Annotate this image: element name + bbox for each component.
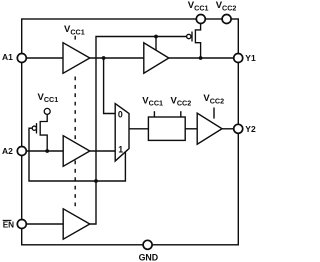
svg-text:VCC1: VCC1 [64,24,85,36]
wire Y2 buffer output [222,128,234,130]
svg-text:VCC1: VCC1 [142,95,163,107]
svg-text:0: 0 [118,109,123,119]
junction Q2 drain on A2 net [45,149,49,153]
svg-text:VCC2: VCC2 [171,95,192,107]
svg-text:Y2: Y2 [245,124,256,134]
svg-text:A1: A1 [2,52,13,62]
svg-text:VCC2: VCC2 [216,0,237,12]
wire level-shifter VCC1 tick [153,111,155,117]
wire Y1 buffer output [169,57,234,59]
svg-text:VCC1: VCC1 [188,0,209,12]
wire Y1 buffer enable stub [155,37,157,51]
wire EN input [26,223,63,225]
junction enable rail to Y1 buffer [154,35,158,39]
buffer U3 (Y2 output) [197,113,222,144]
terminal EN [17,220,26,229]
transistor Q2 gate bubble [32,126,36,130]
svg-text:VCC2: VCC2 [203,93,224,105]
multiplexer [115,104,129,161]
buffer EN [63,209,90,239]
svg-text:GND: GND [139,252,159,262]
buffer U2 (Y1 three-state) [144,43,169,73]
terminal VCC2 [222,15,231,24]
transistor Q1 gate bar [191,32,193,42]
wire Y2 buffer VCC2 tick [213,108,215,119]
wire mux select / Q2 gate net [29,128,125,181]
transistor Q2 channel and leads [40,114,47,150]
terminal Y2 [234,124,243,133]
transistor Q2 gate bar [36,123,38,133]
terminal GND [143,240,152,249]
svg-text:A2: A2 [2,146,13,156]
transistor Q1 gate bubble [187,34,191,38]
junction enable rail to select line [94,179,98,183]
wire level-shifter VCC2 tick [180,111,182,117]
wire A1 input [26,57,63,59]
terminal A1 [17,54,26,63]
svg-text:1: 1 [118,144,123,154]
wire mux 0 input branch [104,58,116,114]
wire level-shifter output [185,128,197,130]
level shifter box [148,117,185,140]
buffer A2 [63,136,90,167]
terminal VCC1 [196,15,205,24]
buffer A1 [63,43,90,74]
wire EN buffer output to enable rail [90,37,187,225]
label EN overline [3,219,12,221]
wire A1 buffer output to Y1 buffer [90,57,144,59]
junction A1 output node [102,56,106,60]
svg-text:EN: EN [3,221,14,230]
terminal Y1 [234,54,243,63]
border / supply-rail loop [22,19,239,245]
VCC1 supply bubble above Q2 [44,108,50,114]
junction Q1 drain on Y1 net [199,56,203,60]
wire mux output [129,128,148,130]
transistor Q1 channel and leads [195,24,200,58]
terminal A2 [17,147,26,156]
wire A2 input [26,150,63,152]
svg-text:Y1: Y1 [245,53,256,63]
VCC1 power-domain dashed line [74,36,76,209]
svg-text:VCC1: VCC1 [38,92,59,104]
wire A2 buffer output to mux 1 input [90,150,115,152]
